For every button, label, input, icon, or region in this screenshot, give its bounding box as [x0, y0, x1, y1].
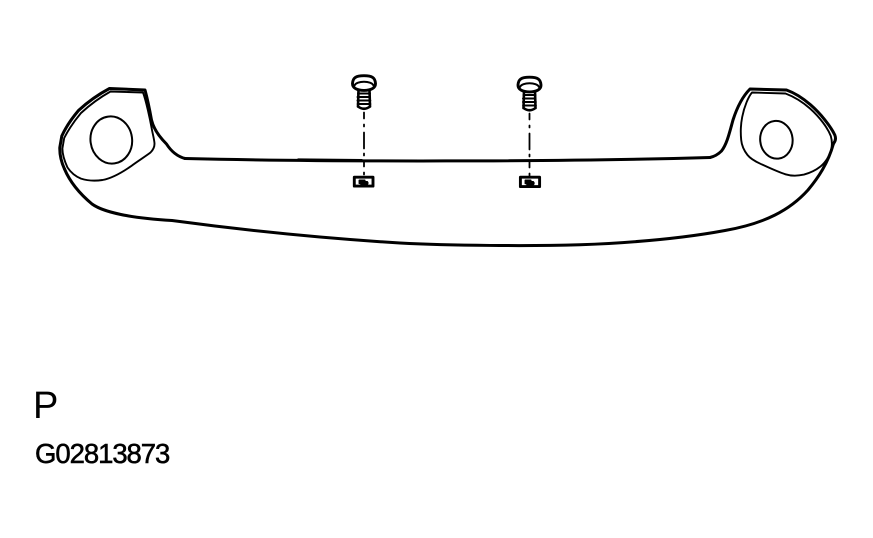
top edge doubled-line speckle left — [298, 158, 362, 161]
screw 1 head dome line — [355, 82, 374, 86]
grille top edge line — [185, 158, 710, 161]
screw 2 head dome line — [520, 83, 539, 87]
screw 2 head — [518, 77, 541, 92]
screw 2 dash-dot leader line — [529, 114, 531, 176]
clip 1 inner detail — [359, 180, 368, 185]
label P — [33, 385, 58, 428]
clip 2 body — [520, 177, 539, 186]
left end cap outer contour — [60, 89, 185, 170]
screw 1 shank with threads — [358, 90, 370, 109]
left cap inner contour (offset line + pocket floor) — [62, 92, 154, 181]
left cap oval hole — [87, 114, 135, 167]
clip 2 inner detail — [525, 180, 534, 185]
right cap oval hole — [758, 119, 794, 160]
right end cap outer contour — [710, 89, 835, 158]
screw 2 shank with threads — [524, 92, 536, 111]
figure number G02813873 — [35, 438, 169, 470]
top edge doubled-line speckle right — [552, 158, 618, 161]
clip 1 body — [354, 177, 373, 186]
bottom sweep curve (cover lower outline) — [65, 144, 834, 246]
screw 1 head — [352, 76, 375, 91]
screw 1 dash-dot leader line — [363, 113, 365, 176]
right cap inner contour (offset line + pocket floor) — [741, 93, 832, 176]
